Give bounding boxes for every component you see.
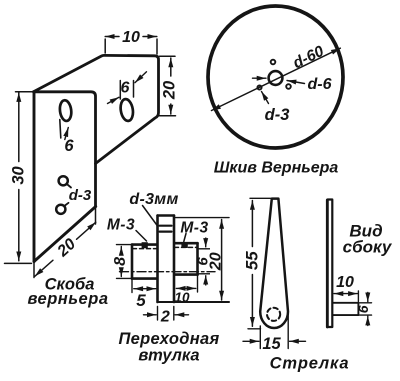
svg-text:Переходная: Переходная	[119, 330, 220, 348]
svg-text:2: 2	[160, 309, 170, 326]
svg-text:5: 5	[136, 291, 146, 310]
svg-text:8: 8	[112, 257, 129, 266]
svg-text:55: 55	[242, 251, 261, 270]
svg-text:втулка: втулка	[138, 347, 199, 365]
svg-text:6: 6	[64, 137, 74, 155]
svg-text:6: 6	[355, 305, 371, 313]
svg-text:d-3мм: d-3мм	[129, 191, 178, 208]
svg-text:20: 20	[160, 80, 178, 100]
svg-text:верньера: верньера	[27, 290, 108, 308]
svg-text:d-60: d-60	[290, 43, 326, 72]
svg-text:10: 10	[174, 290, 190, 305]
svg-text:6: 6	[121, 80, 130, 97]
svg-text:d-3: d-3	[69, 187, 92, 204]
svg-text:М-3: М-3	[180, 220, 208, 237]
svg-text:М-3: М-3	[107, 217, 135, 234]
svg-text:d-6: d-6	[308, 76, 332, 93]
svg-text:10: 10	[336, 274, 354, 291]
svg-text:10: 10	[122, 29, 140, 46]
svg-text:d-3: d-3	[265, 106, 290, 124]
svg-text:15: 15	[262, 335, 281, 353]
svg-text:сбоку: сбоку	[343, 238, 393, 257]
svg-text:30: 30	[10, 166, 28, 185]
svg-text:Шкив Верньера: Шкив Верньера	[214, 160, 339, 177]
svg-text:Стрелка: Стрелка	[270, 355, 350, 373]
svg-text:6: 6	[194, 257, 211, 266]
